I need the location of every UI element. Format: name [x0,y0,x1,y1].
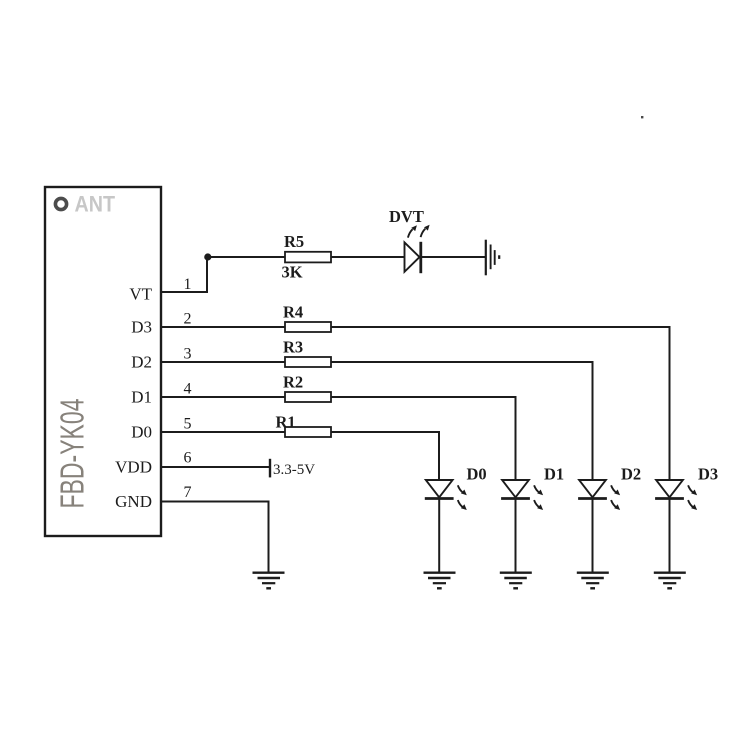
wire DVT to ground [421,256,486,258]
svg-text:2: 2 [184,311,192,328]
LED D2 [578,480,607,499]
resistor R2 [285,392,331,402]
LED D1 emission arrows [534,485,543,510]
resistor R5 [285,252,331,263]
LED D0 [425,480,454,499]
wire D1 LED to ground [515,499,517,573]
svg-text:ANT: ANT [75,192,116,217]
LED D0 emission arrows [458,485,467,510]
power terminal bar [269,459,271,478]
resistor R3 [285,357,331,367]
wire pin1 VT stub [161,257,207,292]
svg-text:R2: R2 [283,373,303,392]
wire D2 LED to ground [592,499,594,573]
svg-text:D2: D2 [621,465,641,484]
ground for LED D2 [577,573,609,589]
svg-text:R5: R5 [284,232,304,251]
wire pin4 D1 row [161,397,516,480]
svg-text:GND: GND [115,492,152,511]
ground for LED D3 [654,573,686,589]
antenna circle icon [55,198,66,209]
svg-text:6: 6 [184,450,192,467]
svg-text:7: 7 [184,484,192,501]
stray speck [641,116,643,118]
ground for LED D0 [424,573,456,589]
resistor R4 [285,322,331,332]
module box FBD-YK04 [45,187,161,536]
LED DVT emission arrows [408,225,430,238]
svg-text:5: 5 [184,416,192,433]
LED D3 [655,480,684,499]
wire pin5 D0 row [161,432,439,480]
svg-text:R1: R1 [276,413,296,432]
wire pin7 GND stub [161,502,269,573]
wire VT node to R5 [207,256,285,258]
svg-text:DVT: DVT [389,207,424,226]
svg-text:D0: D0 [131,423,152,442]
svg-text:D2: D2 [131,353,152,372]
LED DVT cathode bar [419,242,422,273]
svg-text:D1: D1 [544,465,564,484]
resistor R1 [285,427,331,437]
svg-text:R4: R4 [283,303,303,322]
svg-text:4: 4 [184,381,192,398]
ground (right-facing) for DVT [486,240,499,276]
ground for LED D1 [500,573,532,589]
wire D0 LED to ground [438,499,440,573]
wire D3 LED to ground [669,499,671,573]
svg-text:VDD: VDD [115,458,152,477]
wire pin6 VDD stub [161,466,270,468]
svg-text:D3: D3 [131,318,152,337]
svg-text:R3: R3 [283,338,303,357]
LED D3 emission arrows [688,485,697,510]
svg-text:D1: D1 [131,388,152,407]
junction dot node VT [204,253,211,260]
svg-text:D0: D0 [467,465,487,484]
LED DVT triangle [405,242,420,271]
wire R5 to DVT LED [331,256,405,258]
wire pin2 D3 row [161,327,670,480]
svg-text:FBD-YK04: FBD-YK04 [53,399,91,509]
svg-text:VT: VT [129,285,152,304]
svg-text:3: 3 [184,346,192,363]
LED D2 emission arrows [611,485,620,510]
wire pin3 D2 row [161,362,593,480]
svg-text:3K: 3K [282,263,303,282]
LED D1 [501,480,530,499]
ground for GND pin [253,573,285,589]
svg-text:3.3-5V: 3.3-5V [273,462,315,478]
svg-text:D3: D3 [698,465,718,484]
svg-text:1: 1 [184,276,192,293]
